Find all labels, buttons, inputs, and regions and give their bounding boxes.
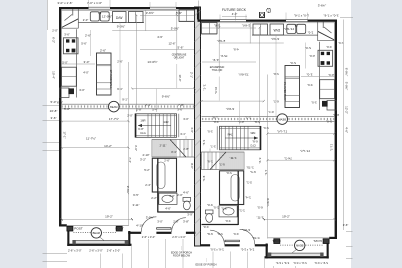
left margin texts (50, 37, 58, 120)
svg-text:5'-0": 5'-0" (51, 100, 57, 104)
deck dimension line (199, 1, 248, 21)
right unit (mirrored, offset down) (198, 13, 344, 268)
left margin dimension ticks (43, 0, 68, 262)
svg-text:3'-6¾": 3'-6¾" (318, 4, 326, 8)
left unit (52, 0, 198, 268)
svg-text:5'-9¼": 5'-9¼" (345, 82, 349, 90)
left gray margin band (0, 0, 47, 268)
svg-text:3'-6": 3'-6" (51, 116, 57, 120)
right margin rotated texts (345, 68, 349, 133)
svg-text:16'-8": 16'-8" (50, 109, 58, 113)
ceiling light box (260, 8, 271, 17)
top-right texts (318, 4, 326, 8)
svg-text:4'-0": 4'-0" (232, 12, 238, 16)
svg-text:10'-4": 10'-4" (52, 71, 56, 79)
dimension 19'-2 right unit (263, 214, 336, 220)
svg-text:8'-9¾": 8'-9¾" (345, 68, 349, 76)
svg-text:19'-2": 19'-2" (105, 214, 113, 218)
right margin dimension ticks (340, 17, 353, 259)
party wall (195, 7, 201, 246)
EDGE OF PORCH labels center bottom (171, 247, 217, 267)
FUTURE DECK label (222, 8, 247, 16)
svg-text:6'-2": 6'-2" (52, 37, 56, 43)
svg-text:12'-2": 12'-2" (345, 106, 349, 114)
right gray margin band (351, 0, 402, 268)
svg-text:EDGE OF PORCH: EDGE OF PORCH (196, 263, 217, 266)
svg-text:3'-6": 3'-6" (343, 223, 349, 227)
dimension 19'-2 left unit (61, 214, 134, 220)
svg-text:ROOF BELOW: ROOF BELOW (173, 255, 191, 258)
svg-text:19'-2": 19'-2" (282, 214, 290, 218)
svg-text:4'-6": 4'-6" (345, 127, 349, 133)
